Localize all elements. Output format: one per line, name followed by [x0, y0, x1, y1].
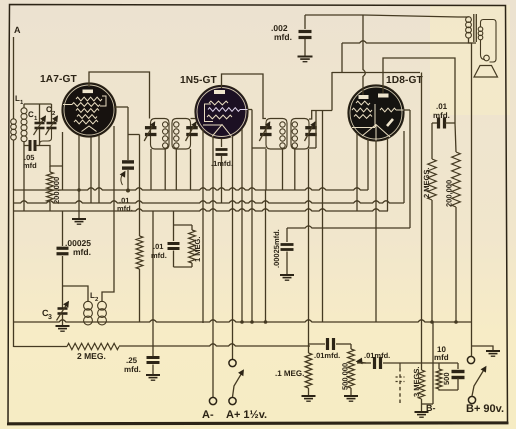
- svg-text:.00025mfd.: .00025mfd.: [272, 229, 281, 268]
- svg-text:A+ 1½v.: A+ 1½v.: [226, 409, 267, 421]
- coil L2 winding 1: [63, 286, 93, 325]
- tube V3 1D8-GT: [348, 85, 404, 141]
- capacitor T2 primary trimmer: [259, 122, 271, 141]
- resistor 2 MEG: [14, 343, 120, 361]
- svg-text:mfd: mfd: [434, 353, 449, 362]
- capacitor .01 mfd (osc grid): [117, 107, 134, 213]
- wire V2 plate to T2: [248, 110, 267, 323]
- IF transformer T1 primary coil: [151, 119, 170, 150]
- wire V2 pin leads: [203, 129, 242, 397]
- wire T1 bottoms: [151, 149, 191, 190]
- ground (C3): [56, 326, 70, 331]
- wire antenna lead: [13, 37, 15, 119]
- wire x139 low: [139, 269, 141, 322]
- switch S1 (B+): [467, 346, 486, 404]
- wire V1 plate to T1: [114, 106, 128, 108]
- wire V2 grid cap: [222, 74, 267, 119]
- wire x266 lower: [265, 190, 267, 322]
- IF transformer T1 secondary coil: [172, 119, 191, 150]
- wire T2 bottoms: [266, 149, 309, 344]
- capacitor .25 mfd: [124, 356, 160, 374]
- tube V1 label: [40, 74, 78, 85]
- wire V1 pin leads: [63, 126, 115, 211]
- svg-text:500: 500: [442, 372, 451, 385]
- svg-text:1N5-GT: 1N5-GT: [180, 75, 218, 86]
- wire bus rail 2: [14, 201, 405, 203]
- resistor 200,000 (1st det screen): [47, 166, 61, 211]
- resistor .1 MEG: [275, 344, 312, 396]
- tube V1 1A7-GT: [62, 83, 116, 137]
- svg-text:B+ 90v.: B+ 90v.: [466, 403, 504, 415]
- svg-text:.25: .25: [126, 356, 138, 365]
- resistor 1 MEG: [189, 225, 202, 267]
- resistor 200,000 (output): [445, 123, 461, 322]
- svg-text:1D8-GT: 1D8-GT: [386, 75, 424, 86]
- speaker cone: [474, 66, 498, 78]
- ground (.002 mfd): [298, 57, 313, 62]
- wire V3 grid1 lead: [363, 15, 365, 95]
- wire bus rail 3: [14, 209, 389, 211]
- ground (V1 filament): [72, 211, 86, 224]
- terminal A+ switch: [226, 359, 267, 421]
- wire .25 node: [152, 211, 154, 356]
- coil L1 label: [15, 94, 24, 106]
- svg-text:2 MEGS.: 2 MEGS.: [422, 168, 431, 198]
- svg-text:.1mfd.: .1mfd.: [211, 159, 233, 168]
- wire mid connections: [174, 211, 193, 267]
- ground (.25 mfd): [146, 375, 160, 380]
- wire V3 pins: [357, 131, 404, 322]
- capacitor .01mfd (coupling): [357, 351, 433, 369]
- capacitor .01 mfd (AF coupling): [151, 242, 180, 267]
- wire y73 bus: [332, 72, 420, 74]
- wire x342: [341, 43, 343, 73]
- ground (500,000): [344, 396, 358, 401]
- ground (.00025 det): [280, 275, 294, 280]
- svg-text:2 MEG.: 2 MEG.: [77, 351, 106, 361]
- capacitor T2 secondary trimmer: [305, 122, 317, 141]
- capacitor .00025 mfd (osc): [57, 211, 92, 308]
- svg-text:.01mfd.: .01mfd.: [314, 351, 340, 360]
- svg-text:200,000: 200,000: [445, 180, 454, 207]
- svg-text:mfd.: mfd.: [73, 247, 91, 257]
- capacitor .002 mfd: [271, 15, 312, 56]
- wire transformer primary bottom: [469, 38, 472, 346]
- ground (B-): [415, 412, 429, 417]
- wire x128 branch: [128, 134, 140, 136]
- terminal B+ label: [466, 403, 504, 415]
- coil L2 label: [90, 291, 99, 303]
- wire x139 vertical: [139, 135, 141, 237]
- capacitor T1 secondary trimmer: [186, 122, 198, 141]
- svg-text:.01mfd.: .01mfd.: [364, 351, 390, 360]
- IF transformer T2 primary coil: [266, 119, 287, 150]
- svg-text:A: A: [14, 25, 21, 35]
- svg-text:3: 3: [48, 314, 52, 321]
- svg-text:1 MEG.: 1 MEG.: [193, 237, 202, 262]
- svg-text:mfd.: mfd.: [433, 111, 450, 120]
- capacitor .01mfd (AF out): [314, 338, 351, 360]
- svg-text:.1 MEG.: .1 MEG.: [275, 369, 304, 378]
- wire bus rail 5 (A+): [119, 344, 310, 346]
- wire x432: [431, 123, 433, 159]
- svg-text:.01: .01: [153, 242, 163, 251]
- capacitor .1 mfd: [211, 150, 233, 204]
- capacitor .05 mfd: [23, 140, 40, 170]
- svg-text:500,000: 500,000: [341, 363, 350, 390]
- capacitor C1: [28, 104, 46, 146]
- wire b- bottom: [0, 0, 1, 1]
- wire V1 grid cap: [89, 72, 150, 119]
- node A (antenna): [14, 25, 21, 35]
- capacitor 10 mfd label: [434, 345, 449, 362]
- wire bus rail 4 (AVC/B+): [14, 320, 472, 324]
- resistor (osc): [136, 236, 143, 269]
- coil L2 winding 2: [98, 190, 114, 325]
- wire .05 to 200k: [40, 146, 63, 167]
- wire T2 top right: [309, 72, 333, 322]
- wire L2 bottoms: [87, 323, 89, 325]
- capacitor C3: [42, 302, 69, 326]
- terminal B-: [426, 403, 436, 413]
- speaker voice coil: [481, 20, 497, 63]
- wire b+ node: [0, 0, 1, 1]
- resistor 2 MEGS: [422, 159, 436, 322]
- capacitor .01 mfd (tone): [432, 102, 455, 129]
- wire transformer primary top: [363, 15, 469, 17]
- capacitor C2: [40, 104, 58, 144]
- capacitor T1 primary trimmer: [144, 122, 156, 141]
- capacitor .00025 mfd (det): [272, 228, 294, 274]
- wire top bus2: [342, 41, 476, 43]
- potentiometer 500,000: [341, 349, 367, 396]
- resistor 500: [436, 369, 451, 389]
- wire x420 vertical: [421, 73, 423, 364]
- wire switch to ground: [472, 346, 494, 351]
- svg-text:.01: .01: [436, 102, 448, 111]
- svg-text:mfd.: mfd.: [124, 365, 141, 374]
- tube V2 label: [180, 75, 218, 86]
- terminal A-: [202, 397, 217, 421]
- wire 500 bottom: [422, 322, 459, 404]
- wire bus rail 1: [14, 188, 369, 190]
- resistor 3 MEGS: [396, 363, 425, 412]
- coil L1 secondary: [21, 104, 27, 211]
- svg-text:A-: A-: [202, 409, 214, 421]
- svg-text:1A7-GT: 1A7-GT: [40, 74, 78, 85]
- wire L1 top bus: [24, 103, 52, 105]
- ground (.1 MEG): [302, 396, 316, 401]
- wire 1meg bottom: [0, 0, 1, 1]
- wire detector line: [287, 110, 410, 228]
- wire V3 grid2 lead: [383, 58, 455, 123]
- IF transformer T2 secondary coil: [291, 119, 309, 150]
- wire 10mfd top: [433, 363, 458, 369]
- tube V3 label: [386, 75, 424, 86]
- svg-text:mfd.: mfd.: [274, 32, 292, 42]
- wire T1 sec to V2: [191, 118, 197, 120]
- ground (B+ line): [486, 351, 500, 356]
- coil L1 primary: [11, 119, 17, 347]
- output transformer T3: [466, 14, 483, 42]
- tube V2 1N5-GT: [195, 86, 248, 139]
- wire rail6: [309, 343, 326, 345]
- wire top bus: [305, 14, 363, 16]
- svg-text:mfd: mfd: [23, 161, 37, 170]
- capacitor 10 mfd: [452, 372, 465, 391]
